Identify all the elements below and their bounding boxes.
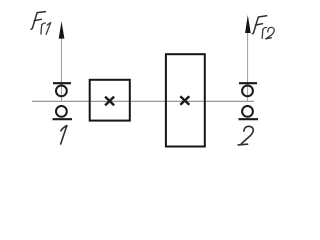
gear block 2 cross mark xyxy=(180,96,189,105)
bearing 1 bottom race bar xyxy=(53,118,73,120)
bearing 1 vertical centerline / force line of action xyxy=(60,35,62,101)
gear block 1 outline xyxy=(90,80,130,121)
bearing 2 top race bar xyxy=(239,82,257,84)
force label Fr1 subscript r1 xyxy=(41,23,51,35)
bearing 2 bottom ball xyxy=(242,106,253,117)
force label Fr2 subscript r2 xyxy=(262,27,274,38)
force arrow Fr2 head xyxy=(245,15,251,33)
bearing 2 bottom race bar xyxy=(239,118,259,120)
bearing label 2 xyxy=(238,126,253,145)
shaft axis centerline xyxy=(32,100,254,102)
gear block 1 cross mark xyxy=(105,97,114,106)
force arrow Fr1 head xyxy=(59,21,65,38)
bearing 1 top ball xyxy=(56,86,67,97)
force label Fr1 letter F xyxy=(31,12,45,30)
bearing 1 bottom ball xyxy=(56,106,67,117)
bearing 2 vertical centerline / force line of action xyxy=(247,29,249,101)
force label Fr2 letter F xyxy=(252,16,266,34)
bearing label 1 xyxy=(61,126,67,145)
bearing 1 top race bar xyxy=(53,82,71,84)
bearing 2 top ball xyxy=(242,86,253,97)
gear block 2 outline xyxy=(166,54,205,146)
